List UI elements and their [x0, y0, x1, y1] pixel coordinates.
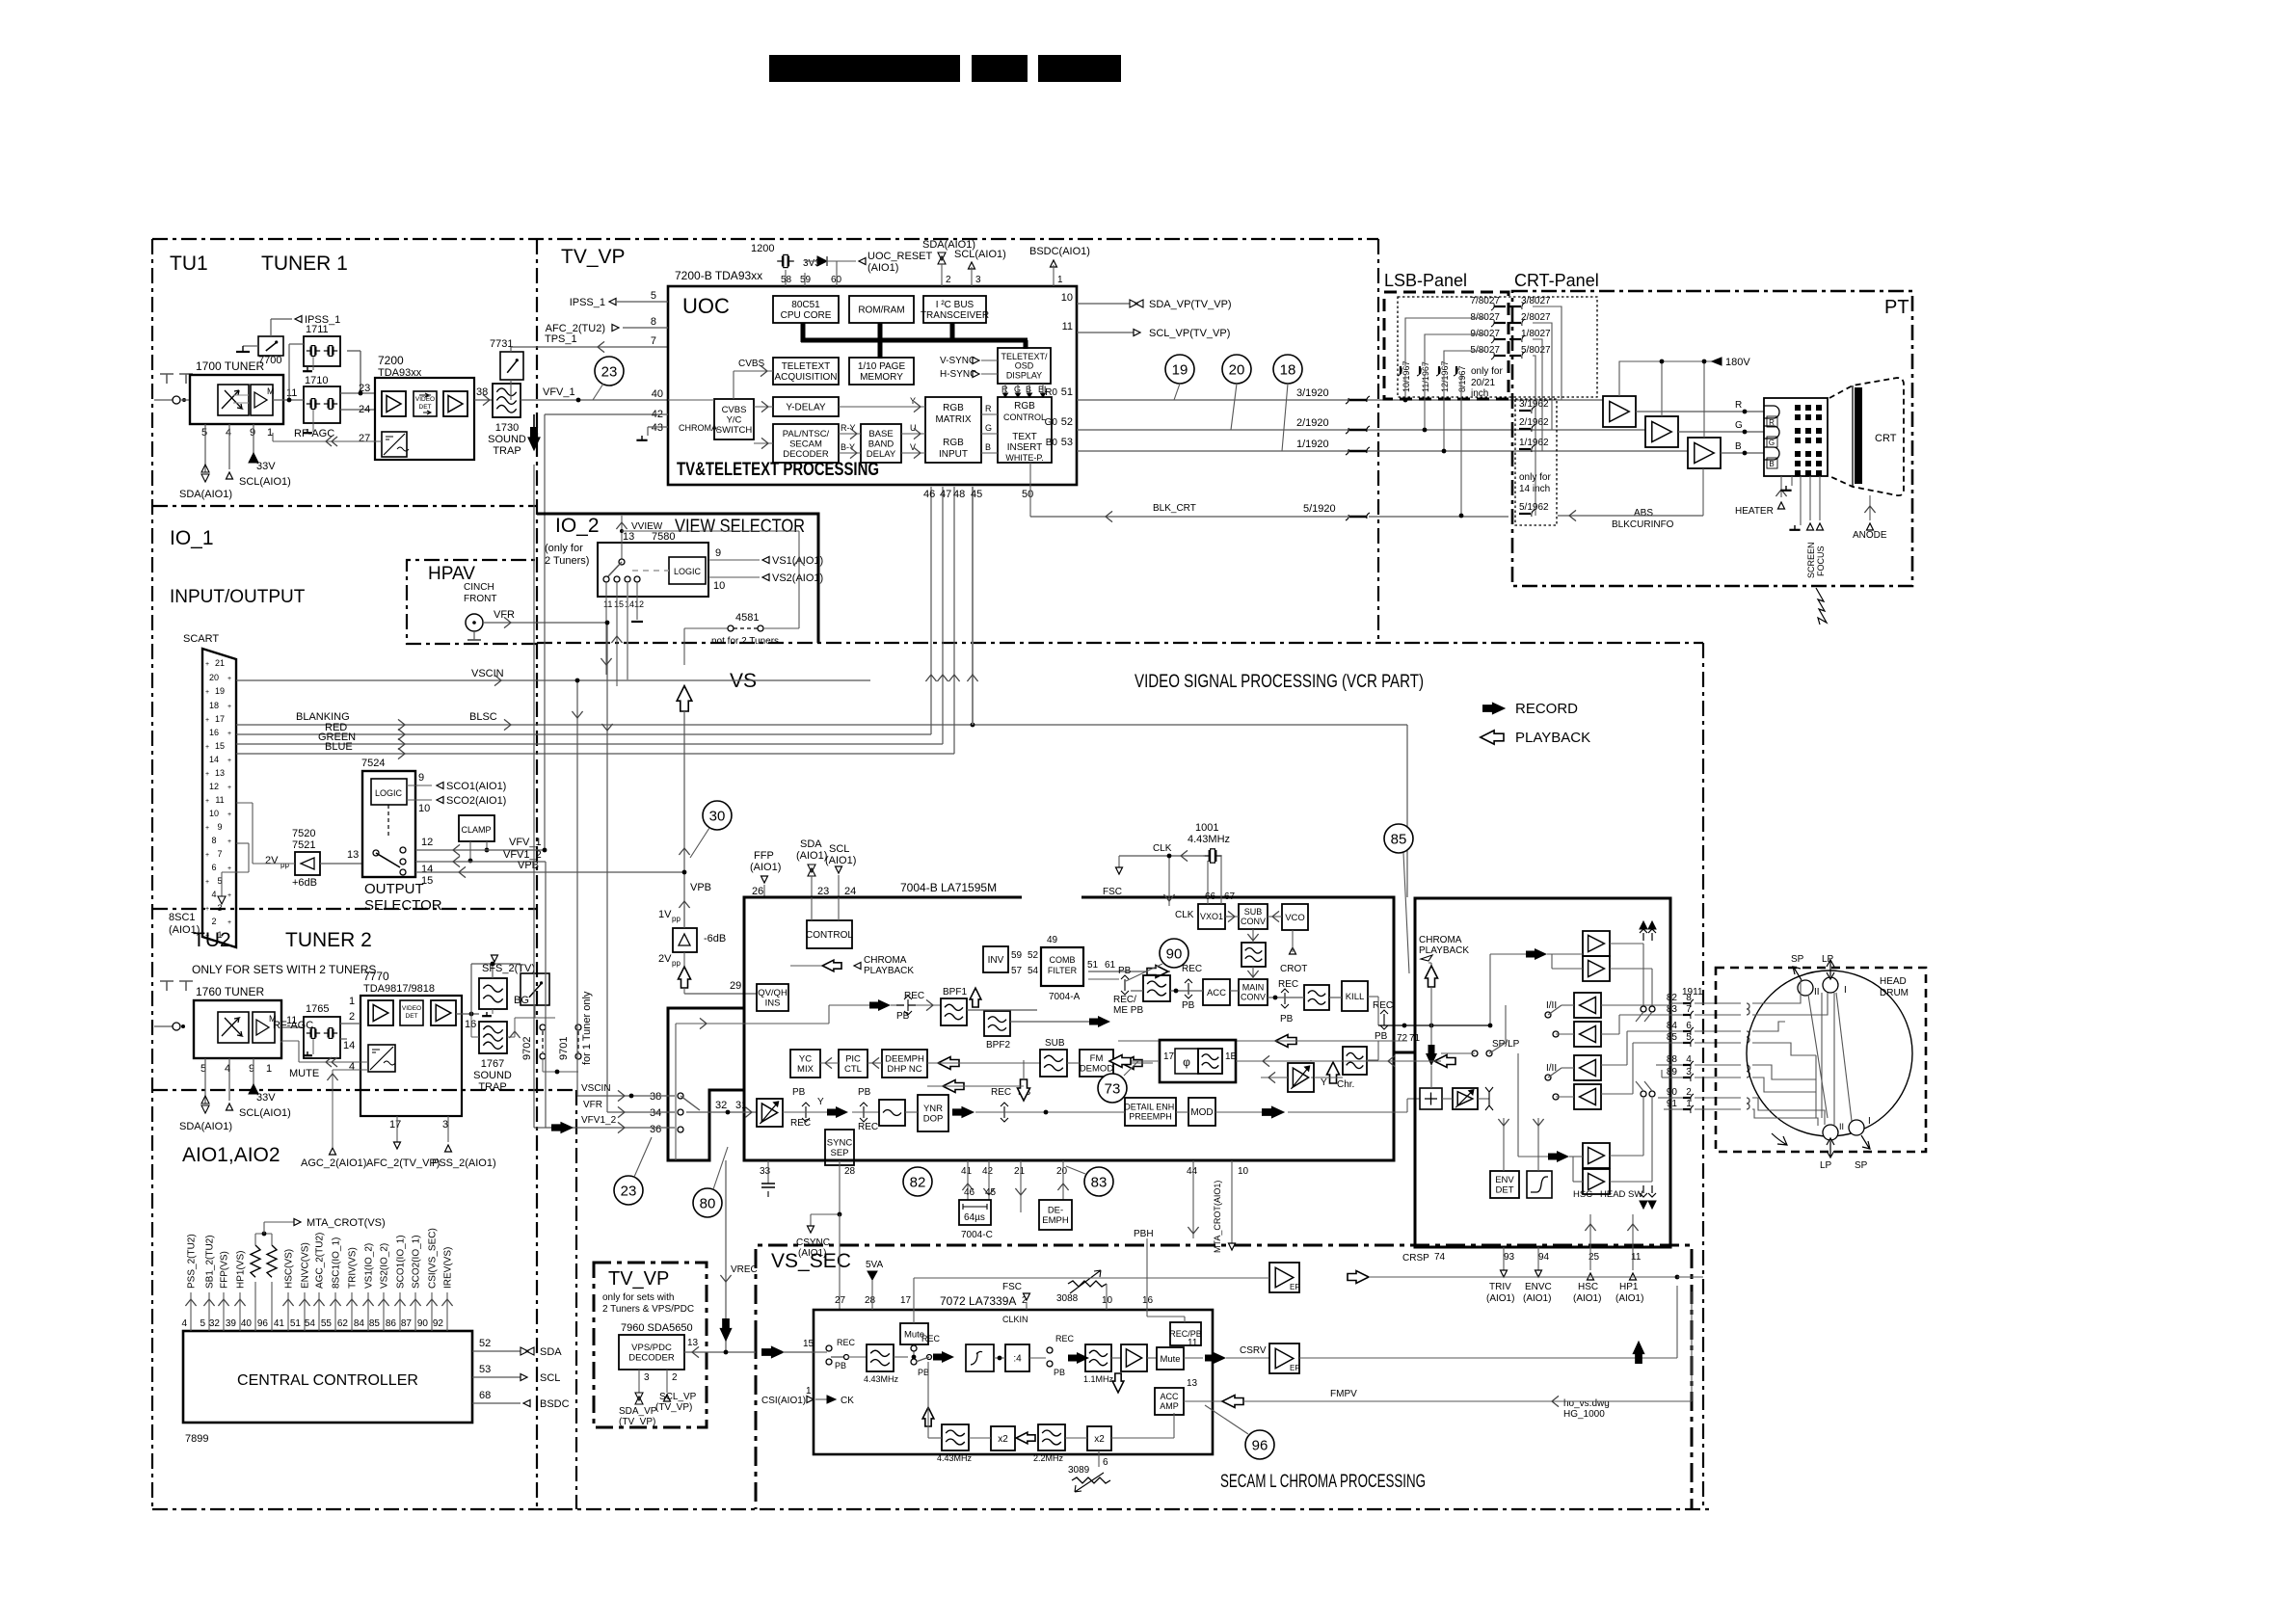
tuner 1760 mixer: [218, 1012, 249, 1043]
svg-text:47: 47: [940, 489, 951, 500]
svg-text:10: 10: [1238, 1166, 1249, 1177]
svg-text:83: 83: [1091, 1174, 1108, 1190]
svg-text:89: 89: [1667, 1067, 1678, 1078]
svg-text:VFR: VFR: [583, 1100, 602, 1110]
callout circle 18: [1273, 355, 1302, 384]
svg-text:13: 13: [623, 531, 634, 543]
svg-text:40: 40: [241, 1318, 253, 1329]
callout circle 90: [1160, 939, 1188, 968]
svg-text:7: 7: [217, 849, 222, 859]
head drum dashed box: [1716, 968, 1926, 1152]
svg-text:CSI(VS_SEC): CSI(VS_SEC): [428, 1228, 439, 1289]
svg-text:50: 50: [1022, 489, 1033, 500]
svg-text:CONTROL: CONTROL: [806, 930, 853, 941]
open up arrow x2: [922, 1407, 934, 1426]
svg-text:SECAM L CHROMA PROCESSING: SECAM L CHROMA PROCESSING: [1220, 1472, 1426, 1492]
BPF2 filter: [984, 1011, 1010, 1036]
svg-text:7004-B LA71595M: 7004-B LA71595M: [900, 881, 997, 894]
svg-text:1767: 1767: [481, 1058, 504, 1070]
svg-text:(AIO1): (AIO1): [1486, 1293, 1514, 1304]
SCL(AIO1) port TU1: [227, 472, 233, 479]
svg-text:HP1(VS): HP1(VS): [236, 1251, 247, 1289]
svg-text:COMB: COMB: [1050, 955, 1076, 965]
svg-text:PIC: PIC: [845, 1054, 861, 1065]
SYNC SEP box: [825, 1130, 854, 1165]
svg-text:DRUM: DRUM: [1880, 988, 1909, 998]
UOC RGB MATRIX / RGB INPUT: [925, 397, 981, 463]
record down arrow head box: [1426, 1045, 1437, 1066]
svg-text:BSDC: BSDC: [540, 1398, 570, 1410]
svg-text:SCL(AIO1): SCL(AIO1): [239, 1107, 291, 1119]
svg-text:OSD: OSD: [1015, 361, 1034, 371]
svg-text:53: 53: [1061, 437, 1073, 448]
8SC1(AIO1) port: [236, 842, 249, 844]
region border VS top: [537, 642, 1703, 644]
svg-text:+: +: [227, 704, 231, 710]
svg-text:1200: 1200: [751, 243, 774, 254]
UOC ROM/RAM: [849, 296, 914, 323]
svg-text:TUNER 1: TUNER 1: [261, 253, 348, 275]
svg-text:PB: PB: [1280, 1014, 1294, 1024]
svg-text:(AIO1): (AIO1): [1523, 1293, 1551, 1304]
svg-text:YC: YC: [799, 1054, 812, 1065]
svg-text:B: B: [1769, 460, 1774, 468]
plus adder box: [1420, 1088, 1442, 1109]
svg-text:3/1962: 3/1962: [1519, 399, 1549, 410]
SCART connector: [202, 649, 236, 947]
svg-text:B: B: [985, 442, 991, 452]
svg-text:MATRIX: MATRIX: [935, 414, 971, 425]
svg-text:4581: 4581: [735, 612, 759, 624]
svg-text:17: 17: [215, 714, 225, 724]
switch 9702 area: [521, 973, 549, 1005]
svg-text:VFV1_2: VFV1_2: [581, 1115, 617, 1126]
title bar block 2: [972, 55, 1028, 82]
svg-text:45: 45: [971, 489, 982, 500]
callout circle 96: [1245, 1430, 1274, 1459]
svg-text:64µs: 64µs: [964, 1212, 985, 1223]
svg-text:180V: 180V: [1725, 357, 1750, 368]
svg-text:SDA_VP: SDA_VP: [619, 1406, 657, 1417]
svg-text:38: 38: [650, 1091, 661, 1103]
wire VFV_1 from sound trap to UOC pin 40: [521, 399, 668, 401]
CSYNC riser x871 into 7072: [839, 1214, 841, 1310]
svg-text:27: 27: [359, 433, 370, 444]
svg-text:9: 9: [418, 772, 424, 784]
svg-text:UOC: UOC: [682, 294, 730, 318]
label TV_VP bottom box: [594, 1263, 707, 1427]
svg-text:TRIV: TRIV: [1489, 1282, 1511, 1292]
REC/PB box 7072: [1170, 1322, 1201, 1345]
svg-text:18: 18: [1280, 361, 1296, 378]
7770 IF amp: [368, 1000, 393, 1025]
svg-text:BSDC(AIO1): BSDC(AIO1): [1029, 246, 1090, 257]
svg-text:36: 36: [650, 1124, 661, 1135]
DEEMPH DHP NC box: [882, 1050, 927, 1078]
record arrow chroma in: [869, 999, 891, 1011]
svg-text:16: 16: [465, 1019, 476, 1030]
record arrow after YNR: [952, 1106, 974, 1119]
callout circle 19: [1165, 355, 1194, 384]
LSB riser wires: [1404, 374, 1406, 400]
ground 7700: [243, 345, 258, 347]
svg-text:5: 5: [651, 290, 656, 302]
svg-text:SCL(AIO1): SCL(AIO1): [954, 249, 1006, 260]
svg-text:46: 46: [964, 1187, 975, 1198]
svg-text:SCREEN: SCREEN: [1806, 542, 1816, 578]
riser VFV_1 x565: [544, 414, 546, 850]
svg-text:38: 38: [476, 386, 488, 398]
antenna TU2: [160, 981, 193, 991]
svg-text:11: 11: [1188, 1338, 1198, 1348]
svg-text:SCL(AIO1): SCL(AIO1): [239, 476, 291, 488]
svg-text:24: 24: [844, 886, 856, 897]
YNR DOP box: [918, 1095, 948, 1131]
svg-text:SDA_VP(TV_VP): SDA_VP(TV_VP): [1149, 299, 1232, 310]
internal verticals ENV: [1503, 1118, 1505, 1171]
CENTRAL CONTROLLER box: [183, 1331, 472, 1423]
7580 LOGIC box: [669, 557, 706, 584]
svg-text:31: 31: [735, 1100, 747, 1111]
svg-text:PLAYBACK: PLAYBACK: [1515, 730, 1590, 746]
svg-text:4.43MHz: 4.43MHz: [1188, 834, 1230, 845]
svg-text:1711: 1711: [306, 324, 329, 335]
callout circle 23 bottom: [614, 1176, 643, 1205]
svg-text:FRONT: FRONT: [464, 594, 496, 604]
svg-text:(TV_VP): (TV_VP): [619, 1417, 655, 1427]
svg-text:19: 19: [215, 686, 225, 696]
svg-text:11: 11: [215, 795, 224, 805]
svg-text:62: 62: [337, 1318, 349, 1329]
svg-text:B-Y: B-Y: [841, 442, 855, 452]
svg-text:CVBS: CVBS: [738, 359, 765, 369]
head II top: [1798, 980, 1813, 996]
region border left: [151, 239, 153, 1509]
svg-text:90: 90: [417, 1318, 429, 1329]
svg-text:SCL: SCL: [829, 843, 849, 855]
svg-text:2V: 2V: [658, 953, 672, 965]
INV box: [983, 946, 1008, 972]
svg-text:Mute: Mute: [1160, 1354, 1180, 1365]
svg-text:VIDEO: VIDEO: [402, 1005, 421, 1012]
ACC box: [1203, 979, 1230, 1005]
svg-text:33V: 33V: [256, 1092, 276, 1104]
svg-text:7960 SDA5650: 7960 SDA5650: [621, 1322, 693, 1334]
svg-text:CLAMP: CLAMP: [461, 825, 491, 835]
svg-text:DHP NC: DHP NC: [887, 1064, 921, 1075]
svg-text:46: 46: [923, 489, 935, 500]
svg-text:+: +: [205, 689, 209, 696]
svg-text:CLKIN: CLKIN: [1002, 1315, 1028, 1324]
svg-text:AMP: AMP: [1160, 1401, 1179, 1411]
connector 4581: [684, 627, 729, 629]
svg-text:+: +: [205, 933, 209, 940]
ACC AMP box: [1155, 1388, 1184, 1415]
Mute box 2: [1157, 1347, 1184, 1370]
CC resistors 40/96: [251, 1245, 260, 1277]
svg-text:30: 30: [709, 808, 726, 824]
svg-text:for 1 Tuner only: for 1 Tuner only: [581, 991, 593, 1065]
filter 1711: [304, 336, 340, 366]
PT dash-dot box: [1512, 291, 1912, 586]
svg-text:1/1920: 1/1920: [1296, 439, 1329, 450]
7524 pins 9/10 SCO ports: [407, 785, 432, 786]
svg-text:15: 15: [215, 741, 225, 751]
svg-text:AFC_2(TV_VP): AFC_2(TV_VP): [366, 1157, 440, 1169]
svg-text:11: 11: [1062, 321, 1073, 333]
svg-text:11: 11: [603, 599, 612, 609]
svg-text:13: 13: [1187, 1378, 1198, 1389]
svg-text:82: 82: [910, 1174, 926, 1190]
svg-text:(AIO1): (AIO1): [825, 855, 856, 866]
svg-text:23: 23: [359, 383, 370, 394]
svg-text:CENTRAL CONTROLLER: CENTRAL CONTROLLER: [237, 1372, 418, 1389]
svg-text:12: 12: [209, 782, 219, 791]
IC 7770 TDA9817/9818 box: [360, 996, 462, 1116]
svg-text:CSRV: CSRV: [1240, 1345, 1267, 1356]
svg-text:8: 8: [651, 316, 656, 328]
svg-text:51: 51: [290, 1318, 302, 1329]
svg-text:VFR: VFR: [494, 609, 515, 621]
svg-text:EF: EF: [1290, 1364, 1299, 1372]
svg-text:7004-A: 7004-A: [1049, 992, 1081, 1002]
svg-text:57: 57: [1011, 966, 1023, 976]
svg-text:15: 15: [614, 599, 624, 609]
svg-text:5VA: 5VA: [866, 1260, 883, 1270]
record arrow to top amps: [1526, 948, 1547, 960]
svg-text:BLK_CRT: BLK_CRT: [1153, 503, 1196, 514]
VIEW SELECTOR thick box: [537, 514, 818, 643]
callout circle 30: [703, 801, 732, 830]
svg-text:28: 28: [865, 1295, 876, 1306]
svg-text:SUB: SUB: [1045, 1038, 1065, 1049]
svg-text:DECODER: DECODER: [783, 449, 829, 460]
wire VFR from cinch: [483, 622, 562, 624]
svg-text:9: 9: [217, 822, 222, 832]
svg-text:H-SYNC: H-SYNC: [940, 369, 976, 380]
svg-text:73: 73: [1105, 1080, 1121, 1097]
svg-text:RF-AGC: RF-AGC: [294, 428, 334, 439]
svg-text:1V: 1V: [658, 909, 672, 920]
svg-text:SCO1(IO_1): SCO1(IO_1): [396, 1235, 407, 1289]
svg-text:14: 14: [209, 755, 219, 764]
region border TU1 bottom: [152, 505, 537, 507]
filter above 1767: [479, 978, 507, 1009]
svg-text:59: 59: [800, 275, 812, 285]
svg-text:+: +: [227, 731, 231, 737]
filter 1765: [304, 1017, 340, 1058]
svg-text:85: 85: [1391, 831, 1407, 847]
svg-text:5: 5: [201, 427, 207, 439]
svg-text:74: 74: [1434, 1252, 1446, 1263]
svg-text:SP: SP: [1855, 1160, 1868, 1171]
svg-text:4.43MHz: 4.43MHz: [937, 1453, 973, 1463]
svg-text:61: 61: [1105, 960, 1116, 971]
MTA_CROT(VS) output: [263, 1222, 265, 1234]
svg-text:ENVC(VS): ENVC(VS): [301, 1242, 311, 1289]
svg-text:+: +: [205, 825, 209, 832]
svg-text:2: 2: [946, 275, 951, 285]
svg-text:VS2(AIO1): VS2(AIO1): [772, 572, 823, 584]
svg-text:Y: Y: [817, 1097, 824, 1107]
svg-text:96: 96: [257, 1318, 269, 1329]
svg-text:only for: only for: [1519, 472, 1551, 483]
svg-text:+: +: [227, 919, 231, 926]
svg-text:CONTROL: CONTROL: [1003, 412, 1046, 422]
UOC BASE BAND DELAY: [861, 424, 901, 463]
svg-text:VCO: VCO: [1285, 913, 1305, 923]
svg-text:3088: 3088: [1056, 1293, 1079, 1304]
riser VSCIN x599: [576, 680, 578, 1096]
svg-text:RGB: RGB: [943, 403, 964, 413]
svg-text:PB: PB: [1182, 1000, 1195, 1011]
sub conv filter: [1241, 943, 1266, 967]
filter 4.43MHz rec: [867, 1344, 894, 1371]
svg-text:HSC: HSC: [1578, 1282, 1598, 1292]
var amp after adder: [1453, 1088, 1478, 1109]
svg-text:8: 8: [211, 836, 216, 845]
IC 7004-B outline: [744, 897, 1394, 1160]
svg-text:PLAYBACK: PLAYBACK: [1419, 945, 1469, 956]
svg-text:REC: REC: [790, 1118, 811, 1129]
svg-text:ENV: ENV: [1495, 1175, 1514, 1185]
svg-text:VSCIN: VSCIN: [471, 668, 504, 679]
svg-text:82: 82: [1667, 993, 1678, 1003]
region border VS right: [1702, 643, 1704, 1509]
svg-text:54: 54: [1028, 966, 1039, 976]
svg-text:40: 40: [652, 388, 663, 400]
svg-text:PAL/NTSC/: PAL/NTSC/: [783, 429, 830, 439]
svg-text:CSI(AIO1): CSI(AIO1): [761, 1396, 806, 1406]
svg-text:+: +: [205, 744, 209, 751]
svg-text:3: 3: [975, 275, 981, 285]
svg-text:(TV_VP): (TV_VP): [655, 1402, 692, 1413]
svg-text:EMPH: EMPH: [1042, 1215, 1069, 1226]
svg-text:SOUND: SOUND: [473, 1070, 512, 1081]
svg-text:85: 85: [1667, 1032, 1678, 1043]
svg-text:80C51: 80C51: [791, 300, 820, 310]
svg-text:33V: 33V: [256, 461, 276, 472]
svg-text:FILTER: FILTER: [1048, 966, 1078, 975]
7200 video detector: [414, 391, 437, 416]
head switch contacts bottom: [1641, 1091, 1646, 1097]
SCREEN FOCUS pins: [1800, 476, 1802, 525]
svg-text:5/1962: 5/1962: [1519, 502, 1549, 513]
svg-text:39: 39: [226, 1318, 237, 1329]
svg-text:14: 14: [421, 864, 433, 875]
svg-text:17: 17: [900, 1295, 912, 1306]
SUB CONV box: [1239, 904, 1268, 929]
7580 switch levers: [621, 516, 623, 559]
wire TPS_1: [511, 346, 668, 348]
VCO box: [1282, 904, 1308, 930]
svg-text:1: 1: [266, 1063, 272, 1075]
svg-text:VPB: VPB: [690, 882, 711, 893]
svg-text:LSB-Panel: LSB-Panel: [1384, 271, 1467, 290]
svg-text:RGB: RGB: [1014, 401, 1035, 412]
svg-text:8SC1(IO_1): 8SC1(IO_1): [332, 1237, 342, 1289]
VFR junction: [562, 622, 607, 624]
record arrow to bottom amps: [1548, 1151, 1569, 1162]
TRIV ENVC HSC HP1 ports: [1501, 1270, 1508, 1277]
svg-text:DETAIL ENH.: DETAIL ENH.: [1124, 1103, 1177, 1112]
svg-text:FM: FM: [1090, 1053, 1104, 1064]
svg-text:7072 LA7339A: 7072 LA7339A: [940, 1294, 1016, 1308]
svg-text:MAIN: MAIN: [1242, 983, 1265, 993]
svg-text:16: 16: [209, 728, 219, 737]
VPS/PDC DECODER box: [619, 1335, 684, 1370]
slope box :4 chain: [966, 1344, 994, 1371]
svg-text:INSERT: INSERT: [1007, 442, 1043, 453]
svg-text:R: R: [985, 404, 992, 413]
svg-text:DET: DET: [1496, 1185, 1514, 1196]
svg-text:DET: DET: [406, 1013, 418, 1020]
svg-text:REC: REC: [858, 1122, 878, 1132]
tuner 1760 IF amp M: [253, 1012, 275, 1043]
svg-text:TDA93xx: TDA93xx: [378, 367, 422, 379]
svg-text:YNR: YNR: [923, 1104, 943, 1114]
svg-text:+: +: [205, 798, 209, 805]
UOC I2C BUS TRANSCEIVER: [923, 296, 986, 323]
svg-text:ENVC: ENVC: [1525, 1282, 1552, 1292]
svg-text:R0: R0: [1045, 387, 1057, 398]
svg-text:13: 13: [687, 1338, 699, 1348]
svg-text:24: 24: [359, 404, 370, 415]
svg-text:SUB: SUB: [1244, 907, 1263, 917]
svg-text:+6dB: +6dB: [292, 877, 317, 889]
svg-text:PB: PB: [918, 1368, 929, 1377]
VPB riser to VS: [683, 872, 685, 928]
region border x557 vertical: [536, 239, 538, 1509]
svg-text:pp: pp: [672, 915, 681, 923]
svg-text:HG_1000: HG_1000: [1563, 1409, 1605, 1420]
svg-text:23: 23: [817, 886, 829, 897]
svg-text:MIX: MIX: [797, 1064, 814, 1075]
svg-text:AFC_2(TU2): AFC_2(TU2): [546, 323, 605, 334]
7524 switch: [373, 850, 379, 856]
svg-text:SECAM: SECAM: [789, 439, 822, 449]
svg-text:20: 20: [209, 673, 219, 682]
wire VPB row (pin 15): [415, 871, 684, 873]
7200 output amp: [443, 391, 467, 416]
svg-text:SDA(AIO1): SDA(AIO1): [179, 489, 232, 500]
svg-text:4: 4: [181, 1318, 187, 1329]
callout circle 20: [1222, 355, 1251, 384]
open up arrow in head box: [1426, 966, 1438, 987]
UOC CVBS to teletext wire: [733, 371, 734, 399]
svg-text:+: +: [205, 906, 209, 913]
svg-text:CROT: CROT: [1280, 964, 1307, 974]
svg-text:55: 55: [321, 1318, 333, 1329]
svg-text:23: 23: [621, 1183, 637, 1199]
svg-text:VSCIN: VSCIN: [581, 1083, 611, 1094]
wire RED: [236, 733, 931, 735]
svg-text:1001: 1001: [1195, 822, 1218, 834]
AGC_2(AIO1) port: [330, 1148, 336, 1155]
svg-text:TPS_1: TPS_1: [545, 333, 577, 345]
playback arrow deemph: [938, 1057, 959, 1070]
record arrow 2: [933, 1351, 954, 1363]
svg-text:1/8027: 1/8027: [1521, 329, 1551, 339]
svg-text:1710: 1710: [305, 375, 328, 386]
svg-text:13: 13: [215, 768, 225, 778]
svg-text:SDA: SDA: [800, 838, 822, 850]
svg-text:1730: 1730: [495, 422, 519, 434]
svg-text:3/1920: 3/1920: [1296, 387, 1329, 399]
svg-text:(AIO1): (AIO1): [1615, 1293, 1643, 1304]
svg-text:OUTPUT: OUTPUT: [364, 881, 424, 897]
sound trap 1730: [493, 384, 521, 417]
